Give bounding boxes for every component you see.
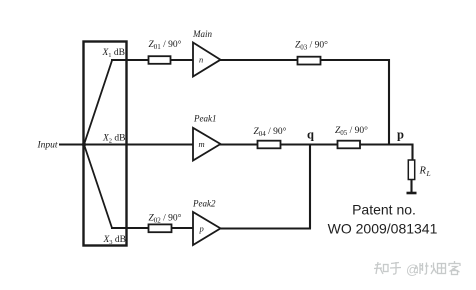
- glyph yan: [431, 263, 446, 275]
- svg-text:p: p: [199, 224, 204, 234]
- wire down to load resistor: [411, 144, 413, 162]
- svg-text:Z04 / 90°: Z04 / 90°: [254, 126, 287, 138]
- load resistor RL: [408, 160, 414, 180]
- wire fan diagonal to bottom branch: [84, 145, 112, 229]
- svg-text:X2 dB: X2 dB: [102, 134, 126, 145]
- wire vertical up to node q: [309, 144, 311, 229]
- svg-text:WO 2009/081341: WO 2009/081341: [328, 221, 438, 237]
- transmission line Z05: [338, 141, 361, 149]
- ground terminal: [407, 192, 417, 195]
- wire row1 main amp to Z03: [220, 59, 298, 61]
- amplifier Peak2 (p): [193, 212, 221, 245]
- wire row1 Z01 to main amp: [170, 59, 193, 61]
- svg-text:Peak2: Peak2: [192, 199, 216, 209]
- svg-text:Z03 / 90°: Z03 / 90°: [295, 40, 328, 52]
- glyph zhi: [374, 262, 388, 274]
- splitter box: [84, 42, 127, 246]
- svg-text:Input: Input: [37, 141, 58, 151]
- svg-text:p: p: [397, 128, 404, 142]
- wire resistor to ground: [410, 179, 412, 193]
- wire row3 Z02 to Peak2: [171, 227, 193, 229]
- transmission line Z02: [149, 224, 172, 232]
- wire fan diagonal to top branch: [84, 61, 112, 145]
- wire row2 Peak1 to Z04: [220, 143, 258, 145]
- junction dot at splitter input: [82, 143, 86, 147]
- wire input: [59, 143, 84, 145]
- svg-text:Z01 / 90°: Z01 / 90°: [149, 39, 182, 51]
- svg-text:Z05 / 90°: Z05 / 90°: [335, 125, 368, 137]
- svg-text:q: q: [307, 128, 314, 142]
- amplifier Peak1 (m): [193, 128, 221, 161]
- transmission line Z01: [149, 56, 171, 64]
- svg-text:L: L: [426, 169, 431, 178]
- glyph xie: [416, 263, 429, 275]
- wire row3 to Z02: [111, 227, 149, 229]
- svg-text:R: R: [419, 166, 427, 177]
- svg-text:n: n: [199, 55, 203, 65]
- transmission line Z04: [258, 141, 281, 149]
- wire vertical down to node p: [388, 59, 390, 146]
- svg-text:Main: Main: [192, 29, 212, 39]
- glyph ke: [449, 261, 461, 275]
- wire row1 Z03 to corner: [320, 59, 390, 61]
- svg-text:Peak1: Peak1: [193, 114, 217, 124]
- svg-text:X1 dB: X1 dB: [101, 48, 125, 59]
- wire row2 Z05 to load corner through node p: [360, 143, 413, 145]
- wire row2 through box to Peak1: [84, 143, 193, 145]
- wire row2 Z04 to Z05 through node q: [280, 143, 338, 145]
- svg-text:@: @: [406, 262, 419, 277]
- svg-text:m: m: [199, 139, 205, 149]
- transmission line Z03: [298, 57, 321, 65]
- glyph hu: [390, 262, 401, 274]
- svg-text:Z02 / 90°: Z02 / 90°: [149, 213, 182, 225]
- amplifier Main (n): [193, 43, 221, 77]
- svg-text:Patent no.: Patent no.: [352, 202, 416, 218]
- watermark zhihu @xieyanke (drawn strokes, light gray): [374, 261, 461, 277]
- wire row3 Peak2 to corner: [220, 227, 311, 229]
- svg-text:X3 dB: X3 dB: [102, 235, 126, 246]
- wire row1 to Z01: [111, 59, 149, 61]
